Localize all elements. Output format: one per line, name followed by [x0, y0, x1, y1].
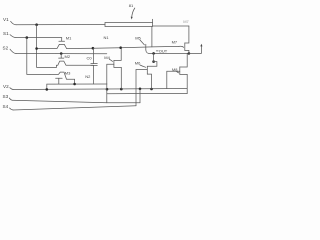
- node junction V2 branch: [46, 88, 49, 91]
- transistor M6 leader: [140, 65, 146, 67]
- wire V1 lead: [11, 21, 16, 25]
- node junction rail start: [35, 47, 38, 50]
- capacitor C0 top lead: [93, 48, 95, 63]
- wire rail N1: [67, 46, 179, 48]
- svg-text:N1: N1: [104, 35, 110, 40]
- transistor M4 gate lead: [107, 63, 114, 65]
- wire M6 drain to source net: [147, 53, 157, 66]
- wire V1 horizontal: [16, 24, 105, 26]
- node junction rail C0: [92, 47, 95, 50]
- label OUT leader dash: [156, 50, 158, 52]
- wire M3 gate net: [47, 84, 107, 90]
- transistor M8 source: [180, 74, 187, 93]
- node junction V2 M6 source: [150, 88, 153, 91]
- svg-text:V2: V2: [3, 84, 9, 89]
- wire lower return net: [107, 93, 187, 95]
- wire S4 branch up to M6 gate: [135, 70, 137, 106]
- node S2 label: [3, 45, 9, 50]
- node junction on S1 wire: [26, 36, 29, 39]
- transistor M8 leader: [177, 72, 179, 73]
- node S3 label: [3, 94, 9, 99]
- transistor M1 gate lead: [61, 38, 63, 41]
- svg-text:S1: S1: [3, 31, 9, 36]
- wire resistor output down to rail: [151, 27, 153, 47]
- node V2 label: [3, 84, 9, 89]
- node junction out: [188, 52, 191, 55]
- transistor M4 source: [114, 67, 121, 89]
- node junction M3 drain on gate net: [73, 83, 76, 86]
- wire S1 lead: [10, 35, 16, 38]
- svg-text:M7: M7: [172, 40, 178, 45]
- label faint top right: [183, 19, 189, 24]
- node junction S2 to M2 gate: [60, 52, 63, 55]
- wire V2 lead: [10, 88, 13, 90]
- transistor M3 label: [65, 70, 71, 75]
- transistor M4 bar: [113, 60, 115, 67]
- wire S4 horizontal: [13, 106, 136, 110]
- transistor M7 source: [185, 50, 189, 53]
- transistor M7 gate hook: [179, 46, 184, 47]
- svg-text:M3: M3: [65, 70, 71, 75]
- svg-text:S3: S3: [3, 94, 9, 99]
- transistor M5 source hook: [146, 50, 149, 53]
- resistor top stub: [152, 19, 154, 22]
- wire S1 branch down to M3 source: [27, 38, 50, 75]
- node S4 label: [3, 104, 9, 109]
- transistor M1 label: [66, 35, 72, 40]
- transistor M7 drain: [185, 26, 189, 43]
- transistor M2 gate bar: [59, 57, 64, 59]
- label 81: [129, 3, 134, 8]
- wire V1 branch down to M2 source: [37, 25, 57, 68]
- svg-text:OUT: OUT: [159, 48, 168, 53]
- wire vertical x107: [106, 64, 108, 103]
- capacitor C0 plates: [91, 63, 98, 65]
- node N2 label: [85, 74, 91, 79]
- node S1 label: [3, 31, 9, 36]
- transistor M6 label: [135, 60, 141, 65]
- resistor 81 box: [105, 23, 153, 27]
- transistor M1 channel hump on rail: [37, 44, 67, 48]
- transistor M6 gate lead: [136, 69, 147, 71]
- transistor M5 leader: [140, 40, 144, 45]
- svg-text:S4: S4: [3, 104, 9, 109]
- transistor M4 label: [104, 55, 110, 60]
- transistor M7 label: [172, 40, 178, 45]
- label OUT: [159, 48, 168, 53]
- capacitor C0 label: [87, 55, 93, 60]
- svg-text:M5: M5: [135, 36, 141, 41]
- wire V2 horizontal: [13, 89, 187, 90]
- transistor M2 channel hump: [57, 61, 94, 65]
- transistor M1 gate bar: [59, 40, 65, 42]
- node junction V2 S3 riser: [139, 88, 142, 91]
- transistor M8 bar: [179, 67, 181, 75]
- transistor M5 label: [135, 36, 141, 41]
- wire S4 lead: [10, 108, 14, 110]
- output arrowhead: [200, 44, 202, 47]
- transistor M3 gate lead: [58, 78, 60, 84]
- svg-text:M2: M2: [65, 54, 71, 59]
- wire S3 lead: [9, 98, 12, 100]
- svg-text:V1: V1: [3, 17, 9, 22]
- node junction M6 drain riser: [152, 60, 155, 63]
- node junction rail M4 drain: [119, 46, 122, 49]
- wire M5 source net: [149, 52, 189, 54]
- node junction on source net: [152, 52, 155, 55]
- transistor M4 drain: [114, 48, 121, 61]
- wire S2 lead: [10, 49, 16, 53]
- transistor M6 source: [147, 74, 151, 89]
- node junction on V1 wire: [35, 23, 38, 26]
- wire S1 horizontal to M1 gate: [16, 37, 62, 39]
- transistor M3 channel: [50, 72, 75, 84]
- wire resistor output right: [153, 25, 189, 27]
- svg-text:M6: M6: [135, 60, 141, 65]
- node junction V2 M4 source: [120, 88, 123, 91]
- transistor M6 bar: [146, 66, 148, 74]
- node N1 label: [104, 35, 110, 40]
- transistor M8 gate lead: [167, 70, 180, 72]
- svg-text:M1: M1: [66, 35, 72, 40]
- svg-text:N2: N2: [85, 74, 91, 79]
- transistor M3 gate bar: [56, 77, 63, 79]
- wire M8 gate branch down: [166, 71, 168, 88]
- wire S2 horizontal: [16, 53, 107, 55]
- arrow 81 leader: [132, 8, 135, 17]
- wire S3 horizontal: [12, 100, 140, 103]
- transistor M8 label: [172, 67, 178, 72]
- transistor M2 label: [65, 54, 71, 59]
- transistor M7 bar: [184, 43, 186, 51]
- svg-text:81: 81: [129, 3, 134, 8]
- wire S3 branch up to V2: [139, 89, 141, 103]
- node junction V2 x107: [106, 88, 109, 91]
- svg-text:S2: S2: [3, 45, 9, 50]
- wire output branch: [189, 45, 202, 53]
- transistor M4 leader: [109, 59, 112, 61]
- svg-text:M7: M7: [183, 19, 189, 24]
- transistor M5 bar: [145, 44, 147, 50]
- svg-text:C0: C0: [87, 55, 93, 60]
- capacitor C0 bottom lead: [93, 66, 95, 84]
- transistor M2 gate lead: [60, 54, 62, 58]
- transistor M8 drain: [180, 53, 187, 67]
- node V1 label: [3, 17, 9, 22]
